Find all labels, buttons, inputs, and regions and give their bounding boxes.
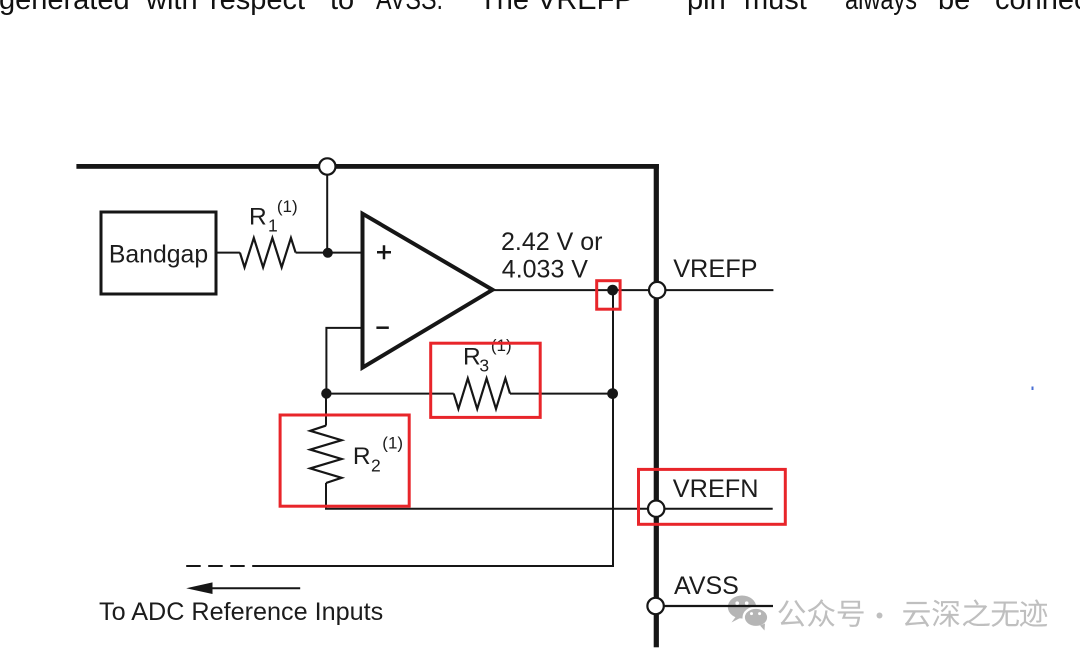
red highlight box around R3 bbox=[431, 343, 541, 417]
red highlight box around output node bbox=[597, 281, 620, 310]
wire: node down to R2 bbox=[325, 394, 327, 426]
resistor R2 bbox=[310, 426, 341, 483]
pin circle VREFN bbox=[648, 501, 664, 517]
svg-text:always: always bbox=[845, 0, 917, 16]
arrow: to ADC reference inputs bbox=[199, 587, 300, 589]
junction node at output bbox=[607, 285, 618, 296]
svg-text:pin: pin bbox=[687, 0, 726, 16]
svg-text:2: 2 bbox=[371, 455, 381, 475]
svg-text:3: 3 bbox=[479, 356, 489, 376]
svg-text:AVSS.: AVSS. bbox=[376, 0, 443, 16]
block: Bandgap reference bbox=[101, 212, 216, 294]
wire: Bandgap to R1 bbox=[216, 252, 240, 254]
watermark text bbox=[778, 600, 805, 627]
wire: AVSS pin lead bbox=[656, 605, 773, 607]
svg-text:The: The bbox=[479, 0, 529, 16]
svg-text:VREFP: VREFP bbox=[537, 0, 634, 16]
svg-text:to: to bbox=[330, 0, 354, 16]
svg-text:(1): (1) bbox=[491, 336, 512, 355]
svg-text:(1): (1) bbox=[382, 434, 403, 453]
wire: rail tap down to op-amp + input node bbox=[326, 167, 328, 253]
svg-text:R: R bbox=[463, 344, 481, 371]
svg-text:R: R bbox=[353, 443, 371, 470]
wire: R1 to op-amp + input bbox=[296, 252, 363, 254]
op-amp - pin marking bbox=[376, 326, 388, 329]
red highlight box around VREFN bbox=[639, 469, 786, 524]
wire: op-amp output to VREFP pin bbox=[493, 289, 774, 291]
svg-text:To ADC Reference Inputs: To ADC Reference Inputs bbox=[99, 598, 383, 626]
wire: output node down to ADC reference feed bbox=[264, 290, 613, 566]
junction node feedback/R2/R3 bbox=[321, 388, 331, 398]
wire: feedback from - input down to R2/R3 node bbox=[326, 328, 362, 394]
svg-text:(1): (1) bbox=[277, 197, 298, 216]
svg-text:VREFN: VREFN bbox=[673, 475, 759, 503]
junction node R3 right bbox=[607, 388, 618, 399]
pin circle on top rail bbox=[319, 158, 335, 174]
svg-text:2.42 V or: 2.42 V or bbox=[501, 228, 602, 256]
wire: top AVDD rail (thick) bbox=[76, 164, 659, 169]
red highlight box around R2 bbox=[280, 415, 409, 506]
svg-text:respect: respect bbox=[210, 0, 305, 16]
wire: R3 to output-branch vertical bbox=[510, 393, 613, 395]
resistor R1 bbox=[240, 238, 296, 267]
op-amp U1 bbox=[363, 214, 493, 368]
svg-text:4.033 V: 4.033 V bbox=[502, 256, 589, 284]
svg-text:1: 1 bbox=[268, 216, 278, 236]
svg-text:AVSS: AVSS bbox=[674, 572, 739, 600]
pin circle VREFP bbox=[649, 282, 665, 298]
wire: dashed continuation to ADC reference inputs bbox=[186, 565, 264, 567]
svg-text:generated: generated bbox=[0, 0, 130, 16]
svg-text:VREFP: VREFP bbox=[673, 255, 757, 283]
wire: R2 bottom to VREFN pin bbox=[326, 483, 773, 509]
svg-text:be: be bbox=[938, 0, 970, 16]
stray blue speck bbox=[1032, 387, 1034, 391]
junction node at + input bbox=[323, 248, 333, 258]
svg-text:Bandgap: Bandgap bbox=[109, 242, 208, 269]
resistor R3 bbox=[454, 378, 510, 409]
svg-text:must: must bbox=[744, 0, 807, 16]
svg-text:connected: connected bbox=[995, 0, 1080, 16]
wire: node to R3 bbox=[326, 393, 453, 395]
svg-text:with: with bbox=[145, 0, 198, 16]
op-amp + pin marking bbox=[377, 245, 391, 259]
pin circle AVSS bbox=[647, 598, 663, 614]
svg-text:R: R bbox=[249, 204, 267, 231]
watermark WeChat icon bbox=[728, 596, 769, 631]
wire: right chip-edge rail (thick vertical) bbox=[654, 164, 659, 647]
